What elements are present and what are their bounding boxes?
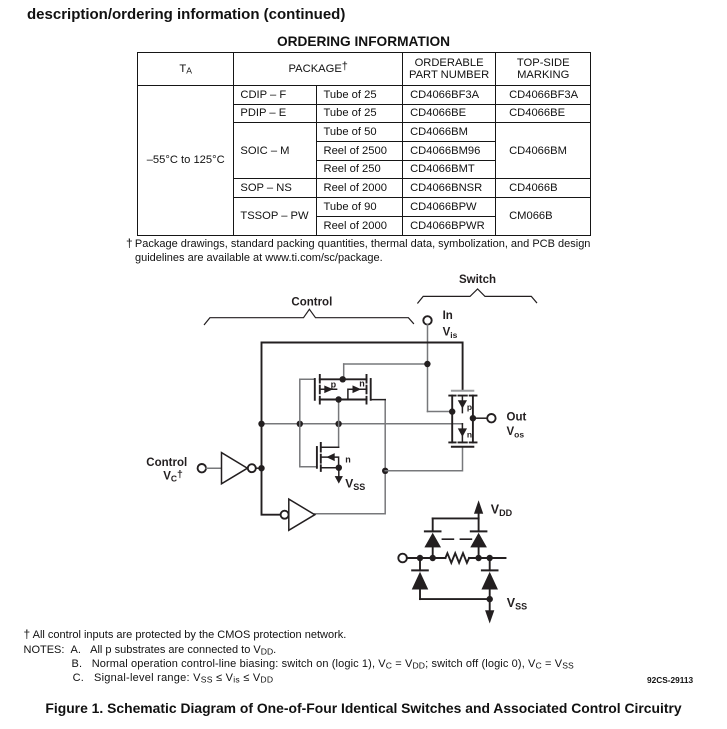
output TG: p body line and arrow [461, 397, 463, 413]
svg-text:Vis: Vis [443, 327, 458, 340]
n-MOSFET gate bar [370, 379, 372, 400]
inverter U2 input bubble [281, 511, 289, 519]
brace Switch [418, 289, 537, 303]
diode D2 (to VDD, right) [478, 547, 480, 558]
wire p-gate column vertical [300, 379, 317, 467]
protection network: output wire stub [469, 557, 505, 559]
svg-text:VSS: VSS [345, 477, 365, 492]
svg-text:n: n [467, 429, 472, 439]
bottom notes [24, 628, 574, 685]
inverter U1 triangle [222, 453, 248, 484]
control transmission gate: top rail [320, 378, 367, 380]
wire In line to switch input bar [428, 411, 453, 413]
wire to Out terminal [473, 417, 487, 419]
big n-MOSFET gate bar [316, 447, 318, 468]
n-MOSFET channel (control TG) [366, 375, 368, 404]
node at inverter column [258, 421, 264, 427]
node D3 tap [417, 555, 423, 561]
big n-MOSFET source lead [321, 467, 339, 469]
inverter U1 output bubble [248, 464, 256, 472]
table footnote [126, 236, 626, 265]
wire control net (horizontal, y=424) [262, 423, 463, 425]
wire to output-TG n gate plate [385, 447, 462, 471]
p-MOSFET substrate arrow [325, 386, 333, 393]
output TG: p gate plate [452, 390, 473, 392]
protection network: input terminal [398, 554, 407, 563]
dashed link between D1 and D2 [442, 538, 472, 540]
node junction on In line [424, 361, 430, 367]
resistor R (protection) [445, 553, 469, 563]
wire box: inverter-1 output to output-TG p gate [262, 343, 463, 515]
brace Control [204, 309, 413, 324]
wire terminal to inverter-1 [206, 467, 222, 469]
node on bottom rail [335, 396, 341, 402]
wire TG bottom rail to nMOS drain [338, 400, 340, 448]
terminal In [423, 316, 431, 324]
big n-MOSFET substrate lead [321, 457, 339, 468]
node on inverter-2 output net [382, 468, 388, 474]
svg-text:VSS: VSS [507, 596, 527, 612]
node source/substrate [336, 465, 342, 471]
svg-text:VDD: VDD [491, 503, 513, 519]
terminal Control input [198, 464, 206, 472]
inverter U2 triangle [289, 499, 315, 530]
control transmission gate: bottom rail [320, 399, 367, 401]
big n-MOSFET drain lead [321, 446, 339, 448]
diode D4 (from VSS, right) [489, 558, 491, 570]
svg-text:Switch: Switch [459, 274, 496, 286]
output TG: left bar (input) [451, 396, 453, 443]
svg-text:Control: Control [291, 297, 332, 309]
wire inverter-2 output net (vertical x=385) [315, 400, 385, 514]
table title [0, 34, 727, 49]
wire In to control-TG top (horizontal) [344, 363, 428, 365]
big n-MOSFET substrate arrow [327, 454, 334, 461]
p-MOSFET gate bar [314, 379, 316, 400]
drawing number [647, 675, 693, 685]
node on top rail [340, 376, 346, 382]
diode D1 (to VDD, left) [432, 547, 434, 558]
output TG: n gate plate [452, 446, 473, 448]
wire U1 bubble to node [256, 467, 262, 469]
terminal Out [487, 414, 495, 422]
svg-text:VC†: VC† [163, 469, 183, 484]
output TG: top channel [449, 395, 476, 397]
node at p-gate column [297, 421, 303, 427]
node on switch input bar [449, 408, 455, 414]
output TG: bottom channel [449, 441, 476, 443]
protection network: input wire [407, 557, 446, 559]
page heading [27, 6, 345, 23]
ordering table [137, 52, 591, 236]
svg-text:n: n [359, 379, 365, 389]
svg-text:p: p [467, 402, 472, 412]
n-MOSFET substrate arrow [353, 386, 361, 393]
node D2 tap [475, 555, 481, 561]
p-MOSFET substrate lead [320, 388, 337, 390]
diode D3 (from VSS, left) [419, 558, 421, 570]
svg-text:Vos: Vos [507, 426, 525, 439]
output TG: n body line and arrow [461, 424, 463, 443]
VDD rail [433, 517, 479, 519]
svg-text:Control: Control [146, 457, 187, 469]
output TG: right bar (output) [472, 396, 474, 443]
n-MOSFET substrate lead [348, 389, 367, 399]
figure caption [0, 700, 727, 716]
big n-MOSFET channel [320, 443, 322, 471]
svg-text:Out: Out [507, 412, 527, 424]
VSS arrow (protection) [489, 599, 491, 611]
node at TG bottom-rail column [335, 421, 341, 427]
wire down to control-TG top rail [343, 364, 345, 379]
node output [470, 415, 476, 421]
VSS rail [420, 598, 490, 600]
node D4 tap [487, 555, 493, 561]
p-MOSFET channel (control TG) [319, 375, 321, 404]
node VSS rail [487, 596, 493, 602]
node inverter-1 output [258, 465, 264, 471]
svg-text:In: In [443, 310, 453, 322]
n-MOSFET gate lead to inverter-2 net [371, 399, 386, 401]
svg-text:p: p [331, 380, 337, 390]
node D1 tap [430, 555, 436, 561]
wire In vertical [427, 325, 429, 412]
VSS arrow (big n-MOSFET) [338, 468, 340, 477]
svg-text:n: n [345, 455, 351, 465]
VDD arrow [478, 513, 480, 519]
